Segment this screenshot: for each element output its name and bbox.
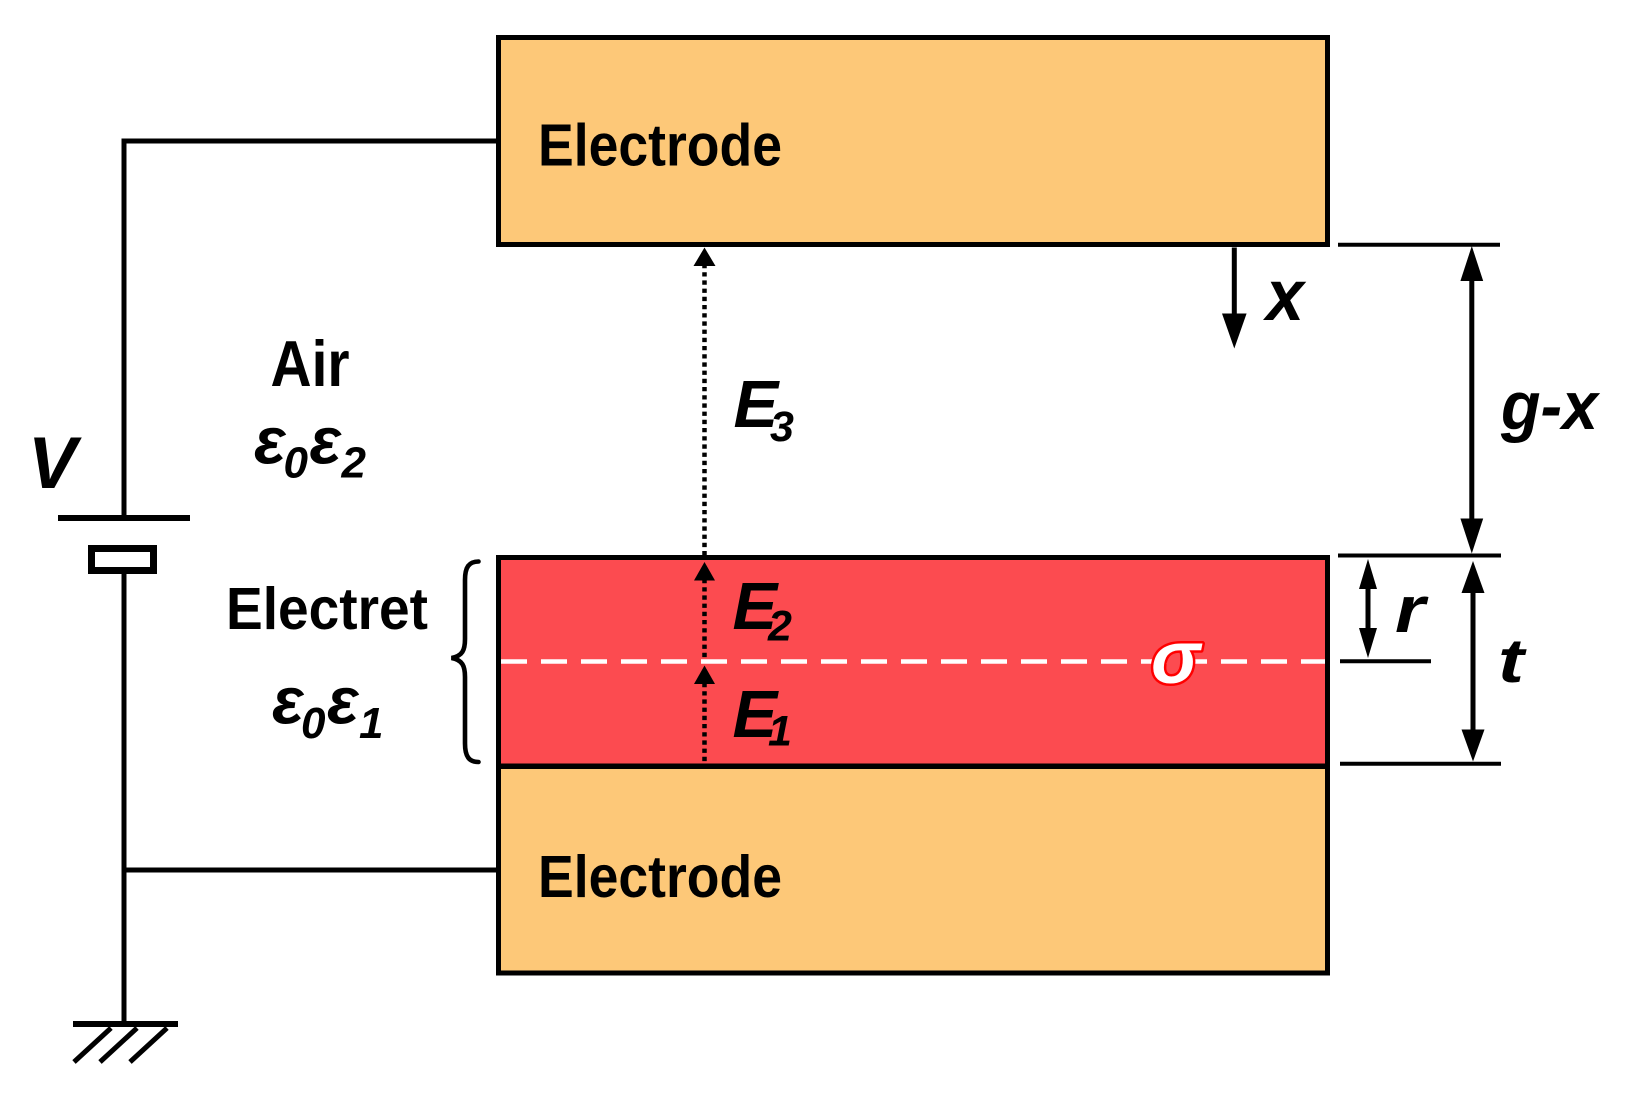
svg-text:σ: σ [1151,616,1203,699]
battery V1 bottom plate (hollow box) [92,549,154,571]
svg-text:x: x [1262,256,1307,336]
E2 field arrow (dotted) [694,562,715,660]
tick line at electret bottom [1340,762,1501,766]
svg-text:ε: ε [327,664,360,738]
svg-text:t: t [1498,627,1527,696]
wire bottom horizontal to bottom electrode [122,868,500,873]
svg-text:0: 0 [301,699,326,748]
tick line at electret top [1338,554,1501,558]
svg-text:Electrode: Electrode [538,113,782,179]
svg-text:1: 1 [768,708,792,756]
battery V1 top plate (long) [58,515,190,521]
svg-text:Air: Air [271,327,350,400]
svg-text:ε: ε [254,404,287,478]
E1 field arrow (dotted) [694,666,715,765]
electrode (top) [499,38,1328,245]
svg-text:1: 1 [359,699,383,748]
brace [452,562,479,763]
svg-text:2: 2 [341,439,367,488]
svg-text:Electret: Electret [226,576,428,642]
t dimension arrow [1462,561,1485,762]
svg-text:2: 2 [767,603,792,651]
electret layer [499,558,1328,767]
g-x dimension arrow [1460,246,1483,554]
wire below battery down to ground [122,574,127,1024]
svg-text:0: 0 [284,439,309,488]
svg-text:V: V [28,423,82,504]
svg-text:ε: ε [310,404,343,478]
label E2 [733,569,793,651]
svg-text:g-x: g-x [1500,368,1601,444]
electrode (bottom) [499,767,1328,974]
svg-text:r: r [1395,572,1429,646]
label eps0 eps2 [254,404,367,488]
label eps0 eps1 [272,664,383,749]
tick line at top electrode bottom [1338,243,1500,247]
wire top horizontal from source to top electrode [122,139,500,144]
label E1 [733,677,792,756]
label E3 [734,367,795,451]
svg-text:Electrode: Electrode [538,844,782,910]
wire left vertical from top wire down to battery [122,139,127,519]
tick line at dashed charge level [1340,659,1431,663]
svg-text:3: 3 [770,403,794,451]
E3 field arrow (dotted) [694,248,716,557]
r dimension arrow [1359,559,1377,658]
x displacement arrow [1222,248,1247,349]
ground [73,1024,178,1062]
dashed charge line [501,659,1325,664]
